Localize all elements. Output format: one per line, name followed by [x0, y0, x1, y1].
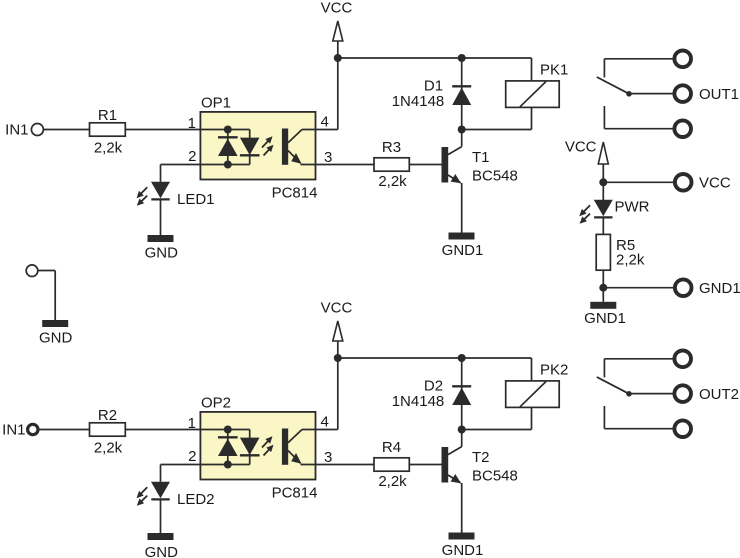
svg-text:2: 2 — [188, 448, 196, 465]
resistor R3 — [374, 158, 409, 171]
svg-text:OUT1: OUT1 — [699, 86, 739, 103]
svg-text:1: 1 — [188, 415, 196, 432]
opto input diode up — [218, 436, 238, 438]
switch contact lower — [603, 406, 605, 429]
wire R5 to junction — [602, 270, 604, 288]
wire LED to GND — [160, 201, 162, 236]
junction — [458, 354, 466, 362]
diode D2 1N4148 — [461, 358, 463, 430]
junction — [224, 161, 232, 169]
relay coil PK1 — [531, 58, 533, 81]
wire R to T base — [409, 164, 441, 166]
transistor T1 BC548 — [442, 147, 449, 183]
wire T emitter to GND1 — [461, 483, 463, 533]
switch contact upper (PK2) — [604, 358, 672, 360]
wire LED to R5 — [602, 219, 604, 235]
svg-text:1N4148: 1N4148 — [392, 393, 445, 410]
opto input diode down — [240, 138, 260, 155]
svg-text:1N4148: 1N4148 — [392, 93, 445, 110]
junction — [458, 426, 466, 434]
wire to VCC connector — [603, 181, 674, 183]
svg-text:GND1: GND1 — [442, 542, 484, 558]
resistor R2 — [90, 423, 126, 436]
junction — [458, 126, 466, 134]
svg-text:PC814: PC814 — [272, 485, 318, 502]
resistor R1 — [90, 123, 126, 136]
svg-text:4: 4 — [321, 114, 329, 131]
svg-text:2: 2 — [188, 148, 196, 165]
svg-text:3: 3 — [324, 149, 332, 166]
svg-text:VCC: VCC — [321, 0, 353, 17]
svg-text:BC548: BC548 — [472, 168, 518, 185]
svg-text:VCC: VCC — [699, 175, 731, 192]
connector pad — [26, 265, 38, 277]
optocoupler OP2 body PC814 — [200, 412, 315, 480]
diode D1 1N4148 — [461, 58, 463, 130]
connector IN1 (channel 2) — [28, 424, 38, 434]
junction — [224, 426, 232, 434]
ground GND1 — [449, 233, 475, 240]
wire VCC rail — [338, 57, 532, 59]
opto light arrows — [262, 440, 269, 448]
resistor R4 — [374, 458, 409, 471]
svg-text:4: 4 — [321, 414, 329, 431]
opto internal wires — [200, 429, 249, 431]
svg-text:T1: T1 — [472, 149, 490, 166]
optocoupler OP1 body PC814 — [200, 112, 315, 180]
wire opto pin 4 to VCC rail — [302, 429, 338, 431]
svg-text:R1: R1 — [98, 107, 117, 124]
wire R to opto pin 1 — [125, 129, 200, 131]
opto internal wires — [200, 129, 249, 131]
wire junction to ground — [602, 288, 604, 302]
wire opto pin 3 to R — [301, 464, 375, 466]
svg-text:LED2: LED2 — [177, 491, 215, 508]
VCC symbol — [333, 321, 343, 341]
junction VCC rail — [334, 354, 342, 362]
svg-text:BC548: BC548 — [472, 468, 518, 485]
wire pad to GND — [38, 270, 55, 272]
LED LED1 — [151, 182, 170, 199]
svg-text:1: 1 — [188, 115, 196, 132]
connector VCC — [675, 174, 692, 191]
svg-text:2,2k: 2,2k — [94, 440, 123, 457]
wire pin2 to LED1 — [160, 165, 162, 182]
svg-text:GND: GND — [145, 544, 179, 558]
wire VCC rail — [338, 357, 532, 359]
wire opto pin 4 to VCC rail — [302, 129, 338, 131]
svg-text:VCC: VCC — [565, 139, 597, 156]
svg-text:D2: D2 — [424, 378, 443, 395]
transistor T2 BC548 — [442, 447, 449, 483]
resistor R5 — [596, 234, 610, 270]
switch contact upper (PK1) — [604, 58, 672, 60]
svg-text:T2: T2 — [472, 449, 490, 466]
opto phototransistor — [282, 429, 288, 465]
svg-text:VCC: VCC — [321, 300, 353, 317]
relay coil PK2 — [531, 358, 533, 381]
svg-text:GND: GND — [145, 245, 179, 262]
connector OUT2 — [674, 385, 691, 402]
svg-text:LED1: LED1 — [177, 191, 215, 208]
wire opto pin 3 to R — [301, 164, 375, 166]
opto input diode down — [240, 438, 260, 455]
VCC symbol right — [598, 142, 608, 164]
svg-text:GND1: GND1 — [699, 280, 740, 297]
wire IN1 to R — [39, 429, 90, 431]
connector IN1 (channel 1) — [31, 124, 43, 136]
VCC symbol — [333, 21, 343, 41]
svg-text:2,2k: 2,2k — [378, 173, 407, 190]
wire to GND1 connector — [603, 287, 674, 289]
svg-text:PK1: PK1 — [540, 62, 568, 79]
switch blade — [597, 377, 629, 394]
connector circle bottom — [674, 420, 691, 437]
ground GND — [148, 533, 174, 540]
svg-text:OP2: OP2 — [201, 395, 231, 412]
junction — [599, 284, 607, 292]
junction — [599, 178, 607, 186]
wire VCC to junction — [602, 164, 604, 182]
svg-text:R2: R2 — [98, 407, 117, 424]
svg-text:IN1: IN1 — [5, 122, 28, 139]
junction — [224, 461, 232, 469]
svg-text:2,2k: 2,2k — [94, 140, 123, 157]
connector circle top — [674, 51, 691, 68]
connector GND1 — [675, 279, 692, 296]
wire LED to GND — [160, 501, 162, 534]
ground GND1 — [590, 302, 616, 309]
wire R to T base — [409, 464, 441, 466]
wire IN1 to R — [44, 129, 90, 131]
svg-text:PK2: PK2 — [540, 362, 568, 379]
svg-text:2,2k: 2,2k — [378, 473, 407, 490]
wire junction to LED PWR — [602, 182, 604, 200]
svg-text:R4: R4 — [382, 439, 401, 456]
switch blade — [597, 77, 629, 94]
connector circle bottom — [674, 120, 691, 137]
svg-text:IN1: IN1 — [2, 422, 25, 439]
svg-text:PC814: PC814 — [272, 185, 318, 202]
opto phototransistor — [282, 129, 288, 165]
junction VCC rail — [334, 54, 342, 62]
svg-text:R3: R3 — [382, 139, 401, 156]
svg-text:GND: GND — [39, 330, 73, 347]
svg-text:PWR: PWR — [615, 199, 650, 216]
svg-text:3: 3 — [324, 449, 332, 466]
opto input diode up — [218, 136, 238, 138]
junction — [224, 126, 232, 134]
junction — [458, 54, 466, 62]
svg-text:D1: D1 — [424, 78, 443, 95]
connector circle top — [674, 351, 691, 368]
svg-text:OUT2: OUT2 — [699, 386, 739, 403]
LED PWR — [594, 200, 613, 217]
ground GND — [42, 320, 68, 327]
svg-text:GND1: GND1 — [584, 310, 626, 327]
connector OUT1 — [674, 85, 691, 102]
svg-text:OP1: OP1 — [201, 95, 231, 112]
ground GND1 — [449, 533, 475, 540]
opto light arrows — [262, 140, 269, 148]
svg-text:GND1: GND1 — [442, 242, 484, 259]
LED LED2 — [151, 482, 170, 499]
ground GND — [148, 235, 174, 242]
switch contact lower — [603, 106, 605, 129]
wire T emitter to GND1 — [461, 183, 463, 233]
wire pin2 to LED2 — [160, 465, 162, 482]
wire R to opto pin 1 — [125, 429, 200, 431]
svg-text:2,2k: 2,2k — [616, 252, 645, 269]
